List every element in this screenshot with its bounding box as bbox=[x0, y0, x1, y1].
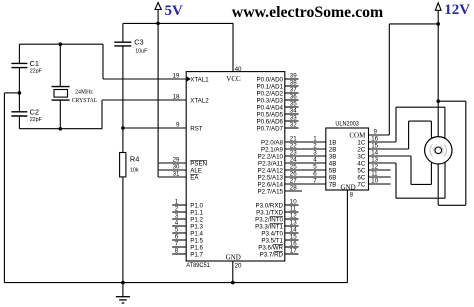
svg-text:9: 9 bbox=[176, 122, 180, 129]
svg-text:14: 14 bbox=[290, 227, 297, 234]
power symbol 5V bbox=[157, 10, 159, 24]
svg-text:31: 31 bbox=[173, 171, 180, 178]
wire U1 P2.4 to U2 5B bbox=[285, 169, 326, 171]
svg-text:36: 36 bbox=[290, 94, 297, 101]
svg-text:P2.1/A9: P2.1/A9 bbox=[261, 146, 284, 153]
svg-text:P1.4: P1.4 bbox=[190, 230, 203, 237]
svg-text:27: 27 bbox=[290, 178, 297, 185]
svg-text:22pF: 22pF bbox=[30, 69, 43, 75]
svg-text:37: 37 bbox=[290, 87, 297, 94]
svg-text:1B: 1B bbox=[329, 139, 337, 146]
IC U1 AT89C51 body bbox=[186, 72, 285, 261]
svg-text:P3.7/RD: P3.7/RD bbox=[260, 251, 284, 258]
svg-text:5V: 5V bbox=[165, 3, 184, 19]
wire C2 bottom lead bbox=[18, 116, 20, 129]
svg-text:7B: 7B bbox=[329, 181, 337, 188]
svg-text:4C: 4C bbox=[357, 160, 365, 167]
svg-text:4B: 4B bbox=[329, 160, 337, 167]
wire U1 P2.3 to U2 4B bbox=[285, 162, 326, 164]
wire ground branch horizontal bbox=[4, 92, 19, 94]
svg-text:ULN2003: ULN2003 bbox=[335, 120, 359, 127]
svg-text:P0.0/AD0: P0.0/AD0 bbox=[257, 76, 284, 83]
svg-text:6C: 6C bbox=[357, 174, 365, 181]
svg-text:P1.3: P1.3 bbox=[190, 223, 203, 230]
svg-text:32: 32 bbox=[290, 122, 297, 129]
svg-text:5B: 5B bbox=[329, 167, 337, 174]
svg-text:ALE: ALE bbox=[190, 167, 202, 174]
power symbol 12V bbox=[437, 10, 439, 24]
wire COM riser to 12V rail bbox=[388, 24, 390, 135]
svg-text:29: 29 bbox=[173, 157, 180, 164]
wire ALE stub bbox=[159, 169, 187, 171]
svg-text:P2.3/A11: P2.3/A11 bbox=[258, 160, 284, 167]
svg-text:30: 30 bbox=[173, 164, 180, 171]
motor M1 rotor bbox=[425, 137, 452, 164]
svg-text:3C: 3C bbox=[357, 153, 365, 160]
wire U1 P2.0 to U2 1B bbox=[285, 141, 326, 143]
svg-text:P2.6/A14: P2.6/A14 bbox=[258, 181, 284, 188]
svg-text:3: 3 bbox=[175, 213, 179, 220]
wire XTAL1 rail corner down bbox=[102, 44, 104, 79]
svg-text:C2: C2 bbox=[30, 107, 39, 116]
wire motor coil A bbox=[395, 107, 397, 142]
node 12V junction bbox=[436, 22, 440, 26]
svg-text:10uF: 10uF bbox=[135, 49, 148, 55]
svg-text:P0.4/AD4: P0.4/AD4 bbox=[257, 104, 284, 111]
svg-text:20: 20 bbox=[235, 263, 242, 270]
svg-text:P0.5/AD5: P0.5/AD5 bbox=[257, 111, 284, 118]
svg-text:2: 2 bbox=[313, 143, 317, 150]
svg-text:7C: 7C bbox=[357, 181, 365, 188]
svg-text:23: 23 bbox=[290, 150, 297, 157]
svg-text:P3.4/T0: P3.4/T0 bbox=[261, 230, 283, 237]
svg-text:8: 8 bbox=[175, 248, 179, 255]
wire motor bottom return bbox=[438, 204, 466, 206]
wire U2 2C to motor coil B bbox=[369, 148, 409, 150]
svg-text:4: 4 bbox=[175, 220, 179, 227]
wire EA to U1 pin 31 bbox=[158, 176, 186, 178]
svg-text:P1.0: P1.0 bbox=[190, 202, 203, 209]
svg-text:P1.2: P1.2 bbox=[190, 216, 203, 223]
svg-text:40: 40 bbox=[235, 66, 242, 73]
wire R4 bottom to ground rail bbox=[122, 177, 124, 283]
svg-text:P2.7/A15: P2.7/A15 bbox=[258, 188, 284, 195]
capacitor C1 bbox=[11, 62, 27, 64]
svg-text:17: 17 bbox=[290, 248, 297, 255]
wire PSEN stub bbox=[159, 162, 187, 164]
wire motor right branch vertical bbox=[465, 101, 467, 205]
svg-text:10: 10 bbox=[290, 199, 297, 206]
svg-text:PSEN: PSEN bbox=[190, 160, 207, 167]
svg-text:16: 16 bbox=[290, 241, 297, 248]
motor M1 hub bbox=[435, 147, 442, 154]
U1 port3 stubs bbox=[285, 204, 299, 206]
svg-text:COM: COM bbox=[349, 131, 366, 139]
wire 5V rail left (C3 top to 5V node) bbox=[123, 22, 158, 24]
node RST junction bbox=[121, 126, 125, 130]
U1 port1 stubs and numbers bbox=[172, 204, 186, 206]
svg-text:6: 6 bbox=[175, 234, 179, 241]
wire motor coil C bbox=[410, 156, 412, 184]
svg-text:EA: EA bbox=[190, 174, 199, 181]
svg-text:P2.2/A10: P2.2/A10 bbox=[258, 153, 284, 160]
svg-text:13: 13 bbox=[290, 220, 297, 227]
wire XTAL2 to U1 pin 18 bbox=[102, 99, 186, 101]
IC U2 ULN2003 body bbox=[326, 128, 369, 190]
svg-text:7: 7 bbox=[313, 178, 317, 185]
svg-text:3B: 3B bbox=[329, 153, 337, 160]
svg-text:GND: GND bbox=[341, 183, 356, 191]
svg-text:8: 8 bbox=[350, 192, 354, 199]
svg-text:7: 7 bbox=[175, 241, 179, 248]
svg-text:XTAL1: XTAL1 bbox=[190, 76, 209, 83]
svg-text:22: 22 bbox=[290, 143, 297, 150]
wire XTAL2 bottom horizontal bbox=[19, 128, 102, 130]
svg-text:33: 33 bbox=[290, 115, 297, 122]
svg-text:P1.1: P1.1 bbox=[190, 209, 203, 216]
wire crystal top lead bbox=[59, 44, 61, 86]
svg-text:P1.7: P1.7 bbox=[190, 251, 203, 258]
svg-text:P2.4/A12: P2.4/A12 bbox=[258, 167, 284, 174]
svg-text:P2.5/A13: P2.5/A13 bbox=[258, 174, 284, 181]
svg-text:AT89C51: AT89C51 bbox=[186, 262, 210, 269]
wire motor coil D bbox=[395, 163, 397, 198]
wire 5V down to EA bbox=[157, 23, 159, 177]
svg-text:12V: 12V bbox=[444, 2, 470, 18]
svg-text:38: 38 bbox=[290, 80, 297, 87]
svg-text:P0.2/AD2: P0.2/AD2 bbox=[257, 90, 284, 97]
svg-text:VCC: VCC bbox=[226, 75, 241, 83]
svg-text:5C: 5C bbox=[357, 167, 365, 174]
svg-text:P3.2/INT0: P3.2/INT0 bbox=[255, 216, 283, 223]
wire U2 COM pin 9 stub bbox=[369, 134, 390, 136]
svg-text:4: 4 bbox=[313, 157, 317, 164]
wire VCC drop to U1 pin 40 bbox=[232, 23, 234, 72]
wire U1 P2.2 to U2 3B bbox=[285, 155, 326, 157]
svg-text:2C: 2C bbox=[357, 146, 365, 153]
svg-text:10k: 10k bbox=[130, 168, 139, 174]
svg-text:1: 1 bbox=[313, 136, 317, 143]
svg-text:P0.1/AD1: P0.1/AD1 bbox=[257, 83, 284, 90]
node crystal top junction bbox=[59, 42, 63, 46]
svg-text:6B: 6B bbox=[329, 174, 337, 181]
wire ground rail bottom bbox=[4, 282, 347, 284]
svg-text:www.electroSome.com: www.electroSome.com bbox=[232, 4, 383, 21]
svg-text:C3: C3 bbox=[134, 38, 143, 47]
crystal X1 24MHz bbox=[52, 86, 70, 88]
svg-text:P3.1/TXD: P3.1/TXD bbox=[256, 209, 283, 216]
node motor common branch bbox=[436, 99, 440, 103]
wire C2 top lead bbox=[18, 93, 20, 112]
svg-text:P1.6: P1.6 bbox=[190, 244, 203, 251]
wire 12V rail bbox=[389, 23, 438, 25]
svg-text:RST: RST bbox=[190, 125, 203, 132]
capacitor C3 bbox=[114, 41, 131, 43]
wire C1 top lead bbox=[18, 44, 20, 63]
svg-text:P0.6/AD6: P0.6/AD6 bbox=[257, 118, 284, 125]
wire C3 bottom to RST node bbox=[122, 46, 124, 128]
wire XTAL2 corner up bbox=[101, 100, 103, 129]
svg-text:R4: R4 bbox=[130, 155, 139, 164]
svg-text:11: 11 bbox=[290, 206, 297, 213]
svg-text:CRYSTAL: CRYSTAL bbox=[72, 98, 98, 104]
svg-text:5: 5 bbox=[313, 164, 317, 171]
wire U2 4C to motor coil D bbox=[369, 162, 397, 164]
svg-text:P3.5/T1: P3.5/T1 bbox=[261, 237, 283, 244]
svg-text:24MHz: 24MHz bbox=[75, 90, 93, 96]
svg-text:1C: 1C bbox=[357, 139, 365, 146]
svg-text:P3.6/WR: P3.6/WR bbox=[258, 244, 283, 251]
svg-text:P3.3/INT1: P3.3/INT1 bbox=[255, 223, 283, 230]
svg-text:21: 21 bbox=[290, 136, 297, 143]
wire crystal bottom lead bbox=[59, 100, 61, 129]
ground symbol bbox=[122, 283, 124, 297]
U1 XTAL1 arrow bbox=[187, 76, 191, 81]
node crystal bottom junction bbox=[59, 127, 63, 131]
wire motor right branch top bbox=[438, 100, 466, 102]
wire C3 top lead bbox=[122, 23, 124, 42]
svg-text:2B: 2B bbox=[329, 146, 337, 153]
svg-text:18: 18 bbox=[173, 94, 180, 101]
svg-text:19: 19 bbox=[173, 73, 180, 80]
wire U1 P2.1 to U2 2B bbox=[285, 148, 326, 150]
U1 port0 stubs and numbers bbox=[285, 78, 299, 80]
node C1-C2 ground junction bbox=[18, 91, 22, 95]
svg-text:P1.5: P1.5 bbox=[190, 237, 203, 244]
svg-text:22pF: 22pF bbox=[30, 117, 43, 123]
wire U2 1C to motor coil A bbox=[369, 141, 397, 143]
wire RST to U1 pin 9 bbox=[123, 127, 186, 129]
svg-text:26: 26 bbox=[290, 171, 297, 178]
wire U2 5C stub bbox=[369, 169, 391, 171]
svg-text:39: 39 bbox=[290, 73, 297, 80]
wire 5V rail right (5V node to VCC drop) bbox=[158, 22, 233, 24]
svg-text:28: 28 bbox=[290, 185, 297, 192]
svg-text:34: 34 bbox=[290, 108, 297, 115]
motor M1 coil arcs bbox=[430, 145, 432, 157]
svg-text:6: 6 bbox=[313, 171, 317, 178]
svg-text:24: 24 bbox=[290, 157, 297, 164]
svg-text:2: 2 bbox=[175, 206, 179, 213]
svg-text:3: 3 bbox=[313, 150, 317, 157]
node U1 ground junction bbox=[231, 281, 235, 285]
svg-text:12: 12 bbox=[290, 213, 297, 220]
node ground symbol junction bbox=[121, 281, 125, 285]
svg-text:35: 35 bbox=[290, 101, 297, 108]
wire U2 3C to motor coil C bbox=[369, 155, 412, 157]
svg-text:P0.7/AD7: P0.7/AD7 bbox=[257, 125, 284, 132]
svg-text:GND: GND bbox=[226, 254, 241, 262]
svg-text:1: 1 bbox=[175, 199, 179, 206]
wire left ground vertical bbox=[3, 93, 5, 283]
svg-text:25: 25 bbox=[290, 164, 297, 171]
wire U1 P2.7 stub bbox=[285, 190, 302, 192]
svg-text:XTAL2: XTAL2 bbox=[190, 97, 209, 104]
wire U2 6C stub bbox=[369, 176, 391, 178]
wire XTAL1 to U1 pin 19 bbox=[103, 78, 186, 80]
wire U2 GND pin 8 drop bbox=[346, 190, 348, 283]
svg-text:5: 5 bbox=[175, 227, 179, 234]
wire U1 GND pin 20 drop bbox=[232, 261, 234, 283]
node 5V junction bbox=[156, 22, 160, 26]
wire motor coil B bbox=[408, 121, 410, 149]
capacitor C2 bbox=[11, 111, 27, 113]
svg-text:C1: C1 bbox=[30, 59, 39, 68]
svg-text:15: 15 bbox=[290, 234, 297, 241]
wire U1 P2.6 to U2 7B bbox=[285, 183, 326, 185]
wire U2 7C stub bbox=[369, 183, 391, 185]
svg-text:P2.0/A8: P2.0/A8 bbox=[261, 139, 284, 146]
resistor R4 bbox=[122, 128, 124, 153]
wire XTAL1 rail horizontal bbox=[19, 43, 103, 45]
wire C1 bottom to ground node bbox=[18, 68, 20, 93]
wire U1 P2.5 to U2 6B bbox=[285, 176, 326, 178]
svg-text:P0.3/AD3: P0.3/AD3 bbox=[257, 97, 284, 104]
svg-text:P3.0/RXD: P3.0/RXD bbox=[255, 202, 283, 209]
wire 12V common drop through motor bbox=[437, 24, 439, 205]
